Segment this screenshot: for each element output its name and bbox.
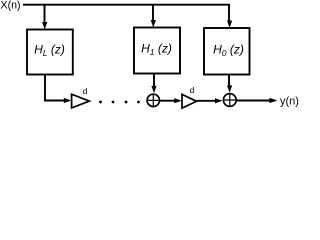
ellipsis dots (99, 101, 140, 104)
wire from H_1 output down with arrowhead into summer 1 (151, 74, 156, 94)
svg-text:H0 (z): H0 (z) (213, 43, 244, 59)
amplifier d (right triangle) (182, 85, 197, 108)
svg-text:X(n): X(n) (1, 0, 21, 12)
wire from summer 2 to output y(n) with arrowhead (237, 98, 278, 103)
svg-text:d: d (83, 86, 88, 96)
wire drop to H_L with arrowhead (42, 4, 47, 30)
filter block H_L(z) (27, 30, 73, 75)
summing junction 1 (147, 94, 159, 106)
amplifier d (left triangle) (72, 86, 90, 108)
filter block H_1(z) (134, 28, 180, 74)
summing junction 2 (223, 94, 236, 107)
wire top bus (23, 5, 229, 10)
wire from H_L output down and right with arrowhead (45, 75, 71, 104)
svg-text:d: d (190, 85, 195, 95)
svg-text:H1 (z): H1 (z) (141, 42, 172, 58)
wire from summer 1 to amplifier 2 with arrowhead (160, 98, 182, 103)
wire drop to H_0 with arrowhead (227, 4, 232, 28)
filter block H_0(z) (204, 28, 250, 75)
svg-text:HL (z): HL (z) (34, 43, 65, 59)
wire from H_0 output down with arrowhead into summer 2 (227, 75, 232, 93)
wire drop to H_1 with arrowhead (151, 4, 156, 28)
wire from amplifier 2 to summer 2 with arrowhead (197, 98, 223, 103)
svg-text:y(n): y(n) (280, 96, 299, 108)
